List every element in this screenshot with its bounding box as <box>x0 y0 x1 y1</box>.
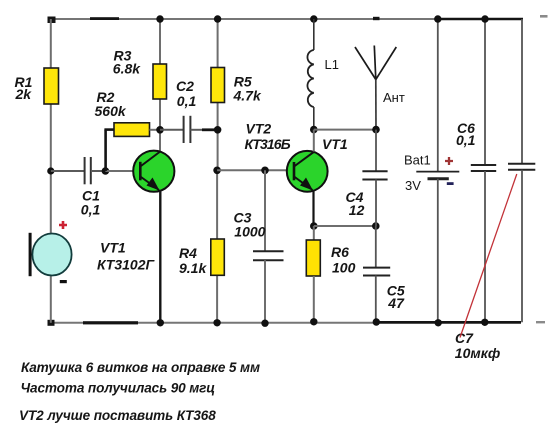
svg-text:0,1: 0,1 <box>177 93 197 109</box>
node VT2 base / R5 / R4 junction <box>213 167 221 175</box>
node bottom-left corner <box>48 320 55 326</box>
wire R3 column <box>159 19 161 151</box>
artifact bottom-right dash <box>536 321 545 323</box>
svg-text:R6: R6 <box>331 244 349 260</box>
node battery at ground rail <box>435 319 442 326</box>
red callout line to C7 <box>460 174 517 338</box>
svg-text:Bat1: Bat1 <box>404 153 431 168</box>
wire VT1 emitter to ground <box>159 191 161 323</box>
resistor R3 <box>113 48 167 99</box>
svg-text:12: 12 <box>349 202 365 218</box>
wire bottom ground rail <box>51 321 521 324</box>
inductor L1 <box>307 19 339 130</box>
svg-text:47: 47 <box>387 295 405 311</box>
svg-text:Частота получилась 90 мгц: Частота получилась 90 мгц <box>21 380 216 395</box>
svg-text:C2: C2 <box>176 78 194 94</box>
wire VT2 emitter <box>312 191 314 227</box>
capacitor C6 <box>456 19 496 322</box>
svg-text:VT2: VT2 <box>246 120 272 136</box>
node base junction (C1 / R2 / VT1 base) <box>102 167 110 175</box>
resistor R2 (feedback, horizontal) <box>95 89 161 171</box>
resistor R1 <box>15 68 59 104</box>
svg-text:R4: R4 <box>179 245 197 261</box>
node VT1 emitter at ground rail <box>157 319 164 326</box>
svg-text:6.8k: 6.8k <box>113 60 141 76</box>
capacitor C3 <box>234 170 284 323</box>
node C2 right / R5 junction <box>214 126 222 134</box>
svg-text:1000: 1000 <box>234 224 265 240</box>
node R4 at ground rail <box>213 319 220 326</box>
svg-text:0,1: 0,1 <box>456 132 476 148</box>
node C1 tap on left column <box>47 167 54 174</box>
node VT2 emitter / R6 junction <box>310 222 318 230</box>
battery Bat1 <box>404 19 459 323</box>
wire L1 to antenna <box>314 129 376 131</box>
svg-text:VT1: VT1 <box>100 240 126 256</box>
microphone BM1 <box>29 221 72 283</box>
node top-left corner <box>48 17 56 24</box>
svg-text:10мкф: 10мкф <box>455 345 500 361</box>
node C6 at top rail <box>481 15 488 22</box>
wire emitter row to C5 <box>314 225 376 227</box>
svg-text:VT1: VT1 <box>322 136 348 152</box>
node R2/R3/C2 junction <box>156 126 164 134</box>
svg-text:9.1k: 9.1k <box>179 260 207 276</box>
capacitor C4 <box>346 130 388 226</box>
transistor VT1 (KT3102) <box>133 151 174 192</box>
wire VT2 base wire <box>217 169 294 171</box>
node C5 at ground rail <box>373 318 380 325</box>
capacitor C5 <box>363 226 405 322</box>
label VT1 KT3102G <box>97 240 155 273</box>
node C4/C5 junction <box>372 222 380 230</box>
node R3 column at top rail <box>156 15 163 22</box>
node R6 at ground rail <box>310 318 317 325</box>
svg-text:L1: L1 <box>325 57 339 72</box>
node C3 top junction <box>261 167 269 175</box>
resistor R5 <box>211 68 262 104</box>
wire R5/R4 column <box>216 19 219 323</box>
wire VT2 collector <box>313 130 315 152</box>
label VT2 KT316B <box>245 120 291 152</box>
svg-text:КТ316Б: КТ316Б <box>245 136 291 152</box>
node antenna junction <box>372 126 380 134</box>
antenna <box>355 46 405 130</box>
capacitor C1 <box>51 157 106 218</box>
artifact top-right dash <box>540 15 548 18</box>
svg-text:КТ3102Г: КТ3102Г <box>97 257 155 273</box>
wire top supply rail <box>50 17 523 20</box>
wire left column (R1 / mic branch) <box>50 19 52 323</box>
resistor R4 <box>179 239 224 276</box>
node L1 column at top rail <box>310 15 317 22</box>
svg-text:560k: 560k <box>95 103 127 119</box>
svg-text:VT2 лучше поставить КТ368: VT2 лучше поставить КТ368 <box>19 408 216 423</box>
transistor VT2 (generator) <box>287 151 328 192</box>
svg-text:4.7k: 4.7k <box>233 87 262 103</box>
capacitor C2 <box>160 78 218 143</box>
resistor R6 <box>306 226 355 322</box>
node R5 column at top rail <box>214 15 221 22</box>
svg-text:C7: C7 <box>455 330 474 346</box>
node C6 at ground rail <box>481 319 488 326</box>
svg-text:2k: 2k <box>15 86 33 102</box>
wire VT1 base wire <box>105 170 140 172</box>
svg-text:3V: 3V <box>405 178 421 193</box>
svg-text:0,1: 0,1 <box>81 202 101 218</box>
svg-text:100: 100 <box>332 260 356 276</box>
node battery at top rail <box>434 15 441 22</box>
node C3 at ground rail <box>261 320 268 327</box>
svg-text:Ант: Ант <box>383 90 405 105</box>
capacitor C7 (electrolytic 10uF) <box>455 19 536 361</box>
node L1 bottom / VT2 collector junction <box>310 126 318 134</box>
svg-text:Катушка 6 витков на оправке 5: Катушка 6 витков на оправке 5 мм <box>21 360 260 375</box>
